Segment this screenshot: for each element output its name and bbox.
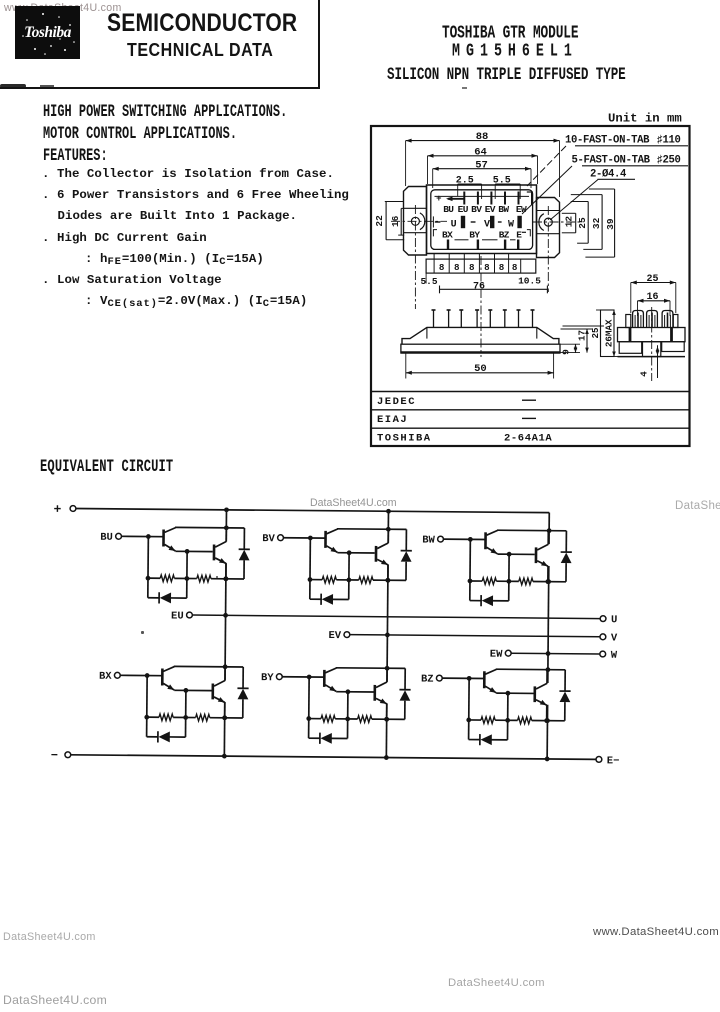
- svg-text:BX: BX: [99, 671, 112, 683]
- svg-text:♯110: ♯110: [657, 134, 681, 146]
- logo speckles: [15, 6, 80, 59]
- diode D7 (base-emitter): [158, 731, 170, 742]
- svg-text:EIAJ: EIAJ: [377, 414, 408, 426]
- diode D11 (base-emitter): [480, 734, 492, 745]
- node: resistor row junctions: [468, 579, 473, 584]
- terminal -: [65, 752, 71, 758]
- wire: phase U collector drop: [225, 510, 227, 541]
- wire: B-E diode row: [148, 597, 159, 599]
- features column: [43, 101, 287, 122]
- tab arrow mark: [448, 198, 465, 200]
- svg-text:−: −: [51, 749, 58, 763]
- spec table lines: [371, 391, 690, 393]
- node: Q6 base / resistor tap: [507, 552, 512, 557]
- pin lead stubs to pitch band: [433, 254, 435, 260]
- terminal BU: [116, 533, 122, 539]
- terminal BX: [114, 672, 120, 678]
- end view body: [618, 328, 686, 342]
- wire: Q9 emitter to Q10 base: [336, 691, 373, 693]
- bottom pin pitch band: [426, 259, 536, 273]
- wire: Q10 emitter down: [386, 704, 388, 720]
- svg-text:TOSHIBA: TOSHIBA: [377, 432, 432, 444]
- watermark mid: [310, 497, 397, 509]
- wire: phase V collector drop: [387, 511, 389, 542]
- wire: base junction down to B-E diode row: [146, 676, 149, 737]
- transistor Q3 (driver): [325, 529, 337, 553]
- svg-text:5.5: 5.5: [420, 276, 437, 287]
- svg-text:8: 8: [469, 262, 475, 273]
- wire: W output row: [511, 652, 600, 655]
- wire: base junction down to B-E diode row: [147, 537, 150, 598]
- wire: B-E diode row: [310, 598, 321, 600]
- svg-text:BV: BV: [471, 204, 482, 215]
- transistor Q10 (output): [375, 682, 387, 704]
- svg-text:25: 25: [646, 274, 658, 285]
- resistor R11: [481, 717, 495, 724]
- wire: base junction down to B-E diode row: [468, 678, 471, 739]
- wire: base junction down to B-E diode row: [469, 539, 472, 600]
- wire: resistor row: [147, 716, 159, 718]
- node: resistor row junctions: [144, 715, 149, 720]
- dimension 64: [428, 155, 538, 157]
- wire: Q12 emitter down: [546, 705, 548, 721]
- svg-text:10-FAST-ON-TAB: 10-FAST-ON-TAB: [565, 134, 650, 146]
- resistor R8: [196, 714, 210, 721]
- node: BW base junction: [468, 537, 473, 542]
- dimension 17 (vertical): [561, 328, 593, 330]
- wire: V output row: [350, 635, 600, 637]
- terminal W: [600, 651, 606, 657]
- watermark top-left: [4, 2, 122, 14]
- node: BU base junction: [146, 534, 151, 539]
- top view: body: [427, 185, 537, 254]
- transistor Q11 (driver): [484, 669, 496, 693]
- wire: tap down to resistor row: [506, 693, 508, 740]
- top row control tabs: [463, 192, 465, 205]
- wire: phase V emitter/output column: [387, 565, 388, 682]
- wire: Q6 collector up: [547, 531, 549, 545]
- wire: tap down to resistor row: [508, 554, 510, 601]
- diode D3 (base-emitter): [321, 594, 333, 605]
- wire: phase W emitter/output column: [548, 566, 549, 683]
- svg-text:BY: BY: [469, 230, 480, 241]
- wire: Q11 collector line: [496, 668, 565, 671]
- resistor R5: [482, 578, 496, 585]
- svg-text:16: 16: [390, 215, 401, 227]
- svg-text:8: 8: [484, 262, 490, 273]
- EQUIVALENT CIRCUIT heading: [40, 457, 173, 477]
- terminal BZ: [436, 675, 442, 681]
- terminal EW: [505, 650, 511, 656]
- wire: Q3 collector line: [337, 528, 406, 531]
- wire: B-E diode row: [309, 737, 320, 739]
- transistor Q9 (driver): [324, 668, 336, 692]
- node: Q4 base / resistor tap: [347, 550, 352, 555]
- wire: BY base lead: [282, 676, 324, 678]
- drawing frame box: [371, 126, 690, 446]
- node: Q2 base / resistor tap: [185, 549, 190, 554]
- wire: Q5 emitter to Q6 base: [497, 553, 534, 555]
- svg-text:V: V: [484, 219, 490, 230]
- svg-text:EV: EV: [485, 204, 496, 215]
- wire: Q11 emitter to Q12 base: [496, 692, 533, 694]
- dimension 16 (left, vertical): [401, 207, 404, 209]
- transistor Q8 (output): [213, 680, 225, 702]
- svg-text:U: U: [611, 614, 617, 626]
- terminal EV: [344, 632, 350, 638]
- svg-text:2-64A1A: 2-64A1A: [504, 432, 552, 444]
- terminal V: [600, 634, 606, 640]
- terminal +: [70, 506, 76, 512]
- terminal BY: [276, 674, 282, 680]
- svg-text:57: 57: [475, 159, 488, 171]
- transistor Q1 (driver): [163, 527, 175, 551]
- dimension 2.5: [458, 183, 482, 185]
- terminal EU: [187, 612, 193, 618]
- diode D10 (free-wheeling): [399, 668, 411, 719]
- wire: U output row: [192, 615, 600, 619]
- svg-text:10.5: 10.5: [518, 275, 541, 286]
- svg-text:8: 8: [499, 262, 505, 273]
- wire: base junction down to B-E diode row: [309, 538, 312, 599]
- terminal E: [596, 756, 602, 762]
- resistor R6: [519, 578, 533, 585]
- terminal BV: [278, 535, 284, 541]
- wire: BV base lead: [283, 537, 325, 539]
- Toshiba logo: [15, 6, 80, 59]
- svg-text:12: 12: [564, 216, 575, 228]
- diode D12 (free-wheeling): [559, 670, 571, 721]
- wire: resistor row: [469, 719, 481, 721]
- dimension 88: [406, 140, 560, 142]
- dimension 5.5: [495, 183, 520, 185]
- dimension 32 (vertical): [571, 194, 602, 196]
- header box: [0, 0, 320, 89]
- svg-text:EW: EW: [516, 204, 527, 215]
- diode D6 (free-wheeling): [560, 531, 572, 582]
- wire: base junction down to B-E diode row: [308, 677, 311, 738]
- right ear hole boss: [539, 214, 544, 231]
- wire: Q8 collector up: [224, 667, 226, 681]
- wire: phase W collector drop: [548, 513, 550, 544]
- svg-text:22: 22: [374, 215, 385, 227]
- svg-text:26MAX: 26MAX: [604, 319, 615, 347]
- bottom row tabs: [447, 240, 449, 250]
- svg-text:EW: EW: [490, 649, 503, 661]
- svg-text:BW: BW: [422, 535, 435, 547]
- wire: Q4 collector up: [387, 529, 389, 543]
- node: BY base junction: [307, 675, 312, 680]
- end view centerline: [651, 307, 653, 381]
- transistor Q6 (output): [536, 544, 548, 566]
- svg-text:W: W: [611, 650, 618, 662]
- wire: tap down to resistor row: [348, 553, 350, 600]
- wire: B-E diode row: [470, 600, 481, 602]
- svg-text:8: 8: [439, 262, 445, 273]
- wire: phase U emitter/output column: [225, 563, 226, 680]
- node: resistor row junctions: [466, 718, 471, 723]
- terminal U: [600, 616, 606, 622]
- resistor R2: [197, 575, 211, 582]
- node: resistor row junctions: [146, 576, 151, 581]
- node: BX base junction: [145, 673, 150, 678]
- node: BV base junction: [308, 536, 313, 541]
- wire: Q2 collector up: [225, 528, 227, 542]
- svg-text:8: 8: [454, 262, 460, 273]
- wire: Q7 collector line: [174, 665, 243, 668]
- svg-text:BZ: BZ: [421, 674, 434, 686]
- svg-text:50: 50: [474, 363, 487, 375]
- dimension 5.5 76 10.5: [440, 288, 548, 290]
- resistor R4: [359, 577, 373, 584]
- terminal BW: [438, 536, 444, 542]
- transistor Q7 (driver): [162, 666, 174, 690]
- svg-text:EV: EV: [328, 630, 341, 642]
- svg-text:EU: EU: [171, 610, 184, 622]
- svg-text:♯250: ♯250: [657, 154, 681, 166]
- svg-text:9: 9: [561, 349, 572, 355]
- svg-text:+: +: [54, 502, 62, 517]
- wire: BU base lead: [121, 535, 163, 537]
- node: Q12 base / resistor tap: [505, 691, 510, 696]
- node: Q10 base / resistor tap: [345, 689, 350, 694]
- svg-text:25: 25: [590, 327, 601, 339]
- wire: resistor row: [148, 577, 160, 579]
- svg-text:Unit in mm: Unit in mm: [608, 111, 682, 125]
- svg-text:39: 39: [605, 218, 616, 230]
- diode D5 (base-emitter): [481, 595, 493, 606]
- node: Q8 base / resistor tap: [183, 688, 188, 693]
- svg-text:+: +: [436, 194, 441, 204]
- right header: [442, 22, 578, 43]
- svg-text:BX: BX: [442, 230, 453, 241]
- wire: BW base lead: [443, 538, 485, 540]
- diode D9 (base-emitter): [320, 733, 332, 744]
- dimension 26MAX box: [601, 310, 615, 357]
- wire: phase U lower emitter column: [223, 702, 225, 756]
- transistor Q12 (output): [535, 683, 547, 705]
- node: resistor row junctions: [308, 577, 313, 582]
- wire: resistor row: [309, 718, 321, 720]
- dimension 16 (end view): [637, 301, 639, 316]
- E (emitter) rail: [71, 755, 596, 760]
- wire: phase W lower emitter column: [546, 705, 548, 759]
- svg-text:88: 88: [476, 131, 489, 143]
- transistor Q4 (output): [376, 543, 388, 565]
- wire: Q3 emitter to Q4 base: [337, 552, 374, 554]
- wire: Q4 emitter down: [387, 565, 389, 581]
- svg-text:4: 4: [639, 371, 650, 377]
- wire: Q10 collector up: [386, 668, 388, 682]
- wire: Q1 collector line: [175, 526, 244, 529]
- svg-text:17: 17: [576, 330, 587, 341]
- wire: Q12 collector up: [546, 670, 548, 684]
- diode D1 (base-emitter): [159, 592, 171, 603]
- dimension 22 (left, vertical): [385, 201, 404, 203]
- dimension 25 (vertical): [571, 201, 588, 203]
- svg-text:EU: EU: [458, 204, 469, 215]
- transistor Q2 (output): [214, 541, 226, 563]
- left ear hole boss: [420, 213, 425, 230]
- svg-text:5.5: 5.5: [493, 176, 511, 187]
- right mounting hole: [544, 218, 552, 226]
- wire: B-E diode row: [469, 739, 480, 741]
- centerlines through holes: [391, 220, 447, 222]
- wire: Q9 collector line: [336, 667, 405, 670]
- moulding recess steps: [455, 239, 469, 241]
- scan speck: [141, 631, 144, 634]
- wire: BZ base lead: [442, 677, 484, 679]
- wire: Q6 emitter down: [547, 566, 549, 582]
- side view pins: [433, 310, 435, 327]
- SEMICONDUCTOR title: [107, 9, 297, 38]
- svg-text:2.5: 2.5: [456, 176, 474, 187]
- diode D4 (free-wheeling): [400, 529, 412, 580]
- svg-text:JEDEC: JEDEC: [377, 396, 416, 408]
- svg-text:64: 64: [474, 146, 487, 158]
- dimension 12 (vertical): [562, 212, 576, 214]
- dimension 25 (end view): [630, 283, 632, 314]
- diode D8 (free-wheeling): [237, 667, 249, 718]
- wire: B-E diode row: [147, 736, 158, 738]
- top view: left mounting ear: [404, 187, 427, 256]
- wire: resistor row: [310, 579, 322, 581]
- wire: phase V lower emitter column: [385, 703, 387, 757]
- resistor R3: [322, 576, 336, 583]
- svg-text:BW: BW: [498, 204, 509, 215]
- resistor R10: [358, 716, 372, 723]
- table dashes: [522, 399, 536, 401]
- svg-text:E−: E−: [607, 755, 620, 767]
- wire: resistor row: [470, 580, 482, 582]
- svg-text:BU: BU: [100, 532, 113, 544]
- scan smudge bottom-left of header box: [0, 84, 26, 88]
- dimension 4: [657, 345, 659, 378]
- svg-text:V: V: [611, 632, 618, 644]
- svg-text:BV: BV: [262, 533, 275, 545]
- svg-text:5-FAST-ON-TAB: 5-FAST-ON-TAB: [572, 154, 651, 166]
- node: resistor row junctions: [306, 716, 311, 721]
- resistor R7: [159, 714, 173, 721]
- dimension 50: [405, 353, 407, 379]
- resistor R12: [518, 717, 532, 724]
- dimension 25 (vertical, side): [563, 325, 605, 327]
- wire: tap down to resistor row: [346, 692, 348, 739]
- svg-text:BU: BU: [443, 204, 454, 215]
- diode D2 (free-wheeling): [238, 528, 250, 579]
- wire: Q7 emitter to Q8 base: [174, 689, 211, 691]
- wire: Q2 emitter down: [225, 563, 227, 579]
- + supply rail: [76, 509, 549, 513]
- svg-text:E: E: [516, 230, 522, 241]
- wire: Q5 collector line: [497, 529, 566, 532]
- svg-text:BZ: BZ: [499, 230, 510, 241]
- svg-text:16: 16: [646, 292, 658, 303]
- svg-text:76: 76: [473, 281, 485, 292]
- transistor Q5 (driver): [485, 530, 497, 554]
- wire: tap down to resistor row: [185, 690, 187, 737]
- svg-text:8: 8: [512, 262, 518, 273]
- dimension 9: [560, 343, 580, 345]
- svg-text:BY: BY: [261, 672, 274, 684]
- resistor R1: [160, 575, 174, 582]
- end view bolts: [633, 311, 644, 328]
- wire: tap down to resistor row: [186, 551, 188, 598]
- dimension 39 (vertical): [589, 188, 615, 190]
- svg-text:32: 32: [591, 217, 602, 229]
- wire: BX base lead: [120, 674, 162, 676]
- side view outline: [402, 327, 559, 344]
- wire: Q8 emitter down: [224, 702, 226, 718]
- svg-text:25: 25: [577, 217, 588, 229]
- dimension 57: [433, 168, 531, 170]
- side view base plate: [401, 344, 560, 352]
- wire: Q1 emitter to Q2 base: [175, 550, 212, 552]
- left mounting hole: [411, 217, 419, 225]
- resistor R9: [321, 715, 335, 722]
- top view: right mounting ear: [537, 198, 560, 258]
- mid row main tabs U V W: [435, 221, 441, 223]
- node: BZ base junction: [467, 676, 472, 681]
- watermarks bottom: [593, 926, 719, 938]
- top view: inner moulding: [431, 190, 533, 250]
